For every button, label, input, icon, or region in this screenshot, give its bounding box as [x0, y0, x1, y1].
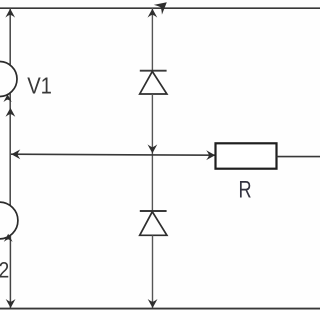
arrow up at bottom of V1 [3, 94, 11, 102]
wire bottom rail [0, 308, 320, 310]
wire middle branch top [151, 8, 153, 71]
wire top rail [0, 7, 320, 9]
wire left branch lower [9, 236, 11, 308]
arrow right into resistor [206, 150, 215, 160]
wire resistor to right edge [277, 156, 320, 158]
wire left branch upper [9, 8, 11, 65]
source V2 [0, 202, 18, 239]
wire left branch middle [9, 94, 11, 206]
resistor R body [216, 143, 277, 168]
svg-text:2: 2 [0, 258, 9, 283]
svg-text:V1: V1 [27, 72, 52, 99]
wire middle branch between diodes [151, 94, 153, 211]
arrow up on left branch below V1 [5, 108, 15, 117]
svg-text:R: R [239, 175, 252, 203]
arrow up at top of middle branch [148, 9, 158, 18]
diode D2 triangle [140, 212, 167, 236]
arrow up at top of left branch [5, 9, 15, 18]
arrow diagonal at top node of middle branch [154, 0, 171, 15]
diode D1 triangle [140, 71, 167, 94]
source V1 [0, 62, 17, 97]
wire middle branch bottom [152, 235, 154, 308]
diode D2 cathode bar [140, 210, 167, 212]
arrow left at left end of center wire [11, 149, 20, 159]
diode D1 cathode bar [140, 70, 167, 72]
arrow up at bottom of V2 [4, 234, 13, 242]
arrow down at bottom of left branch [6, 299, 16, 308]
wire center horizontal [11, 154, 216, 155]
arrow down on middle branch above center node [148, 144, 158, 153]
arrow down at bottom of middle branch [148, 299, 158, 308]
